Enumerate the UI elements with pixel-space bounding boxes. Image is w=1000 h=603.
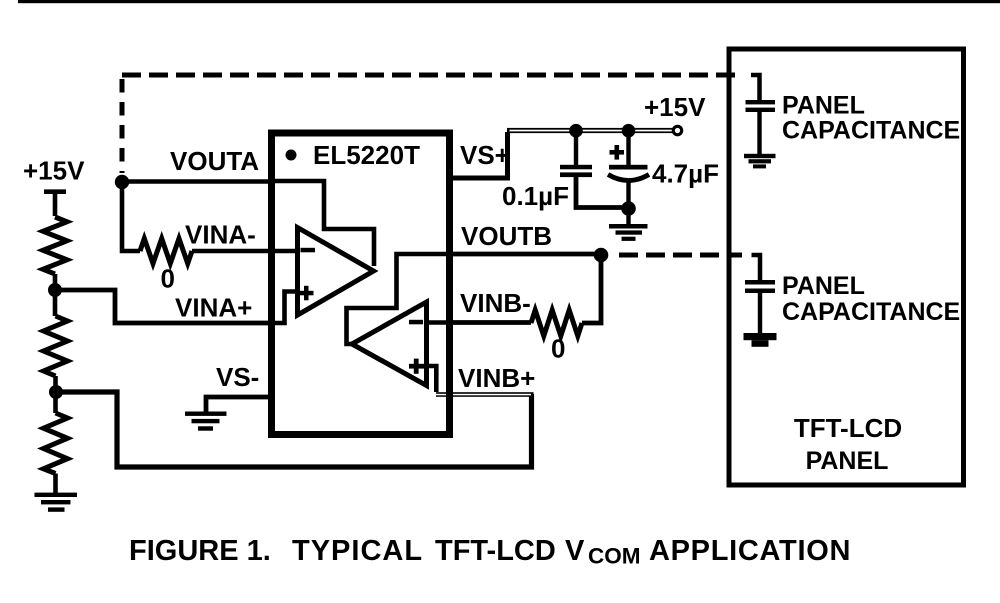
svg-text:VOUTA: VOUTA	[170, 146, 259, 176]
svg-text:+15V: +15V	[23, 156, 85, 186]
svg-text:VINB-: VINB-	[460, 288, 531, 318]
svg-text:PANEL: PANEL	[782, 272, 865, 300]
svg-text:TFT-LCD: TFT-LCD	[794, 413, 902, 443]
svg-text:CAPACITANCE: CAPACITANCE	[782, 298, 960, 326]
svg-text:VS+: VS+	[460, 140, 510, 170]
svg-text:4.7µF: 4.7µF	[652, 159, 719, 189]
svg-text:VOUTB: VOUTB	[461, 221, 552, 251]
svg-text:VS-: VS-	[216, 362, 259, 392]
svg-text:0: 0	[161, 264, 175, 294]
svg-text:+15V: +15V	[644, 92, 706, 122]
svg-text:PANEL: PANEL	[782, 92, 865, 120]
svg-text:PANEL: PANEL	[806, 447, 889, 475]
svg-text:TFT-LCD: TFT-LCD	[435, 535, 556, 567]
svg-text:VINA-: VINA-	[185, 220, 256, 250]
svg-text:VINA+: VINA+	[175, 293, 252, 323]
svg-text:V: V	[565, 535, 585, 567]
svg-text:FIGURE 1.: FIGURE 1.	[129, 535, 271, 567]
svg-text:TYPICAL: TYPICAL	[292, 535, 423, 567]
svg-text:CAPACITANCE: CAPACITANCE	[782, 117, 960, 145]
svg-text:0: 0	[551, 334, 565, 364]
svg-text:EL5220T: EL5220T	[313, 140, 420, 170]
svg-text:0.1µF: 0.1µF	[502, 181, 569, 211]
svg-text:APPLICATION: APPLICATION	[649, 535, 851, 567]
svg-text:COM: COM	[588, 544, 641, 569]
svg-text:VINB+: VINB+	[458, 363, 535, 393]
